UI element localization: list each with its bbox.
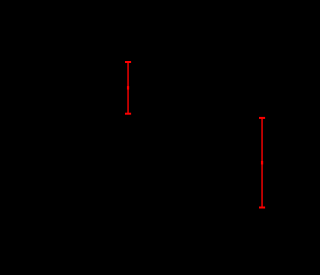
error bar 2 (259, 118, 265, 208)
error bar 2 top cap (259, 117, 265, 119)
error bar 2 center marker (261, 161, 263, 165)
error bar 1 top cap (125, 61, 131, 63)
error bar 1 bottom cap (125, 113, 131, 115)
error bar 1 center marker (127, 86, 129, 90)
error bar 2 stem (261, 118, 263, 208)
error bar 2 bottom cap (259, 207, 265, 209)
error bar 1 stem (127, 62, 129, 114)
error bar 1 (125, 62, 131, 114)
